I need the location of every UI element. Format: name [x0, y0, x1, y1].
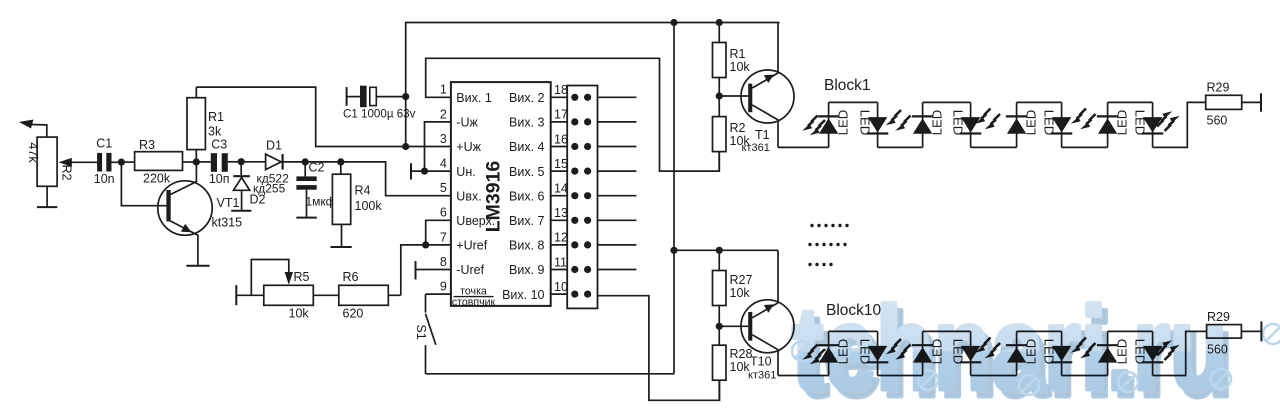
LED D7 (Block1) — [1097, 102, 1130, 147]
wire (signal to pin 5) — [341, 162, 451, 196]
wires (LED chain) (Block10) — [829, 331, 1153, 375]
node (D1/D2 anode) — [238, 158, 245, 165]
wire (pin 1 loop to R2 10k) — [426, 58, 720, 171]
potentiometer R2 wiper arrow — [59, 158, 98, 167]
wire (T1 to LED chain) — [778, 146, 829, 148]
diode D2 — [233, 162, 285, 211]
terminal (Block1 end) — [1260, 93, 1262, 111]
resistor R1 3k — [187, 87, 224, 162]
LED D8 (Block1) — [1133, 102, 1164, 147]
light arrows (LED D2/D3 Block10) — [886, 339, 911, 360]
label LM3916 — [483, 161, 505, 233]
diode D1 — [241, 139, 305, 186]
LED D4 (Block10) — [951, 331, 982, 375]
light arrows (LED D4/D5 Block10) — [975, 338, 1000, 359]
wire (T10 to LED chain) — [778, 375, 829, 377]
node (T1 base) — [716, 92, 749, 99]
top +U rail — [406, 22, 780, 24]
capacitor C2 — [296, 161, 335, 218]
LED D6 (Block1) — [1042, 102, 1073, 147]
transistor T10 — [741, 250, 794, 381]
node (rail/R1 10k) — [716, 19, 723, 26]
IC right pin labels, numbers and stubs — [502, 83, 568, 302]
node (detector out) — [302, 158, 309, 165]
resistor R27 10k — [713, 250, 753, 326]
+U vertical bus — [405, 22, 407, 147]
LED D1 (Block10) — [818, 331, 851, 375]
terminal (Block10 end) — [1260, 321, 1262, 341]
node (rail/R27) — [716, 247, 723, 254]
capacitor C1 — [94, 137, 122, 187]
LED D7 (Block10) — [1097, 331, 1130, 375]
wire (to R4) — [305, 161, 341, 163]
node (C1/R3/VT1 base) — [118, 159, 125, 166]
wire (R6 to Uref pins) — [401, 245, 426, 295]
LED D5 (Block1) — [1006, 102, 1039, 147]
connector output stub wires — [598, 97, 637, 269]
connector contact dots — [571, 94, 591, 298]
resistor R1 10k — [713, 23, 751, 97]
switch S1 — [414, 294, 451, 374]
LED D3 (Block1) — [912, 102, 945, 147]
wire (R1 top to +U node) — [196, 87, 404, 146]
label 47k — [26, 142, 40, 163]
ellipsis (omitted blocks 2..9) — [808, 224, 848, 266]
resistor R29 (Block1) — [1153, 81, 1261, 148]
wire (bus to T10 rail) — [674, 249, 778, 251]
trimmer R5 — [236, 260, 313, 321]
LED D2 (Block10) — [858, 331, 889, 375]
resistor R2 10k — [713, 96, 751, 171]
IC left pin numbers and labels — [440, 83, 496, 309]
node (pin 4 / pin 2 tie) — [421, 168, 428, 175]
light arrows (LED D4/D5) — [975, 109, 1000, 130]
node (VT1 collector) — [193, 158, 200, 165]
wire (pin 6 tie to pin 7) — [426, 220, 451, 245]
ground (VT1 emitter) — [186, 265, 209, 267]
light arrows (LED D2/D3) — [886, 110, 911, 131]
ground (R4) — [331, 246, 352, 248]
capacitor C3 — [196, 138, 241, 187]
light arrows (LED D6/D7) — [1071, 109, 1096, 130]
wires (LED chain) (Block1) — [829, 102, 1153, 147]
ground (R2) — [37, 186, 57, 207]
wire (pin 2 to pin 4) — [425, 122, 451, 171]
node (+U / C1) — [402, 93, 409, 100]
terminal (pin 8) — [416, 261, 451, 279]
resistor R3 — [121, 138, 196, 186]
light arrows (LED D6/D7 Block10) — [1071, 338, 1096, 359]
+U branch bus — [673, 23, 675, 374]
potentiometer R2 body — [37, 137, 57, 186]
light arrows (LED D8) — [1157, 111, 1180, 131]
connector J1 body — [567, 86, 597, 309]
label Block10 — [826, 302, 882, 319]
wire (S1 to +U bus) — [426, 373, 675, 375]
terminal (pin 4) — [411, 163, 451, 179]
light arrows (LED D8 Block10) — [1157, 340, 1180, 360]
wire (Vyh.10 to R28) — [598, 296, 720, 401]
transistor VT1 — [158, 162, 242, 266]
label Block1 — [824, 77, 871, 94]
wire (node to VT1 base) — [121, 162, 166, 206]
resistor R29 (Block10) — [1153, 310, 1262, 376]
node (+U / pin 3) — [402, 143, 451, 150]
LED D2 (Block1) — [858, 102, 889, 147]
light arrows (LED D1 Block10) — [802, 345, 825, 365]
ground (D2) — [231, 210, 251, 212]
light arrows (LED D1) — [802, 116, 825, 136]
node (T10 base) — [716, 323, 749, 330]
LED D4 (Block1) — [951, 102, 982, 147]
resistor R6 — [313, 270, 401, 321]
node (R4 top) — [337, 158, 344, 165]
LED D5 (Block10) — [1006, 331, 1039, 375]
resistor R4 — [332, 162, 382, 247]
ground (C2) — [296, 217, 316, 219]
LED D3 (Block10) — [912, 331, 945, 375]
input signal arrow — [19, 120, 47, 138]
LED D1 (Block1) — [818, 102, 851, 147]
capacitor C1 1000u electrolytic — [343, 86, 416, 121]
op-amp IC U1 LM3916 body — [451, 82, 551, 306]
label R2 — [60, 165, 74, 181]
resistor R28 10k — [713, 326, 753, 400]
node (rail/bus A) — [670, 19, 677, 26]
node (pin 7) — [422, 241, 451, 248]
transistor T1 — [741, 23, 794, 155]
LED D6 (Block10) — [1042, 331, 1073, 375]
node (bus/T10 rail) — [670, 247, 677, 254]
LED D8 (Block10) — [1133, 331, 1164, 375]
